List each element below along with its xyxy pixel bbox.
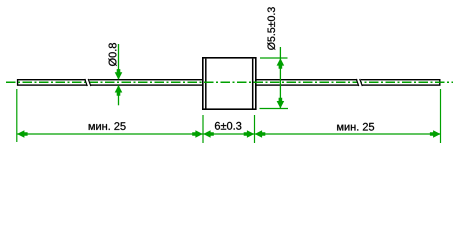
dimension text min. 25 left (89, 122, 126, 130)
arrow left end of 6±0.3 (203, 130, 214, 138)
dimension Ø0.8 lower line (118, 85, 120, 105)
extension line body right (254, 115, 256, 143)
dimension text min. 25 right (337, 123, 374, 131)
lead right wire (253, 80, 440, 85)
break symbol right lead (356, 79, 362, 87)
extension line body left (202, 115, 204, 143)
diode body (203, 58, 256, 109)
body end-cap line left (205, 59, 207, 109)
dimension Ø0.8 arrow down (115, 69, 123, 80)
dimension Ø5.5±0.3 extension line top (260, 57, 288, 59)
centerline axis (6, 81, 453, 83)
extension line far right (440, 89, 442, 143)
dimension text Ø5.5±0.3 (267, 7, 275, 50)
lead left wire (18, 80, 206, 85)
arrow right end of min.25 right (430, 130, 441, 138)
dimension Ø0.8 upper line (118, 44, 120, 79)
dimension Ø5.5±0.3 arrow up (277, 58, 285, 69)
break symbol left lead (85, 79, 91, 87)
dimension text 6±0.3 (215, 122, 241, 130)
extension line far left (16, 89, 18, 142)
arrow left end of min.25 right (255, 130, 266, 138)
bottom dimension line (17, 133, 441, 135)
arrow right end of 6±0.3 (244, 130, 255, 138)
dimension Ø5.5±0.3 extension line bottom (260, 108, 289, 110)
body end-cap line right (252, 59, 254, 109)
arrow right end of min.25 left (192, 130, 203, 138)
arrow left end of min.25 left (17, 130, 28, 138)
dimension Ø5.5±0.3 vertical line (279, 47, 281, 109)
dimension Ø0.8 arrow up (115, 85, 123, 96)
dimension text Ø0.8 (108, 43, 116, 66)
dimension Ø5.5±0.3 arrow down (277, 98, 285, 109)
